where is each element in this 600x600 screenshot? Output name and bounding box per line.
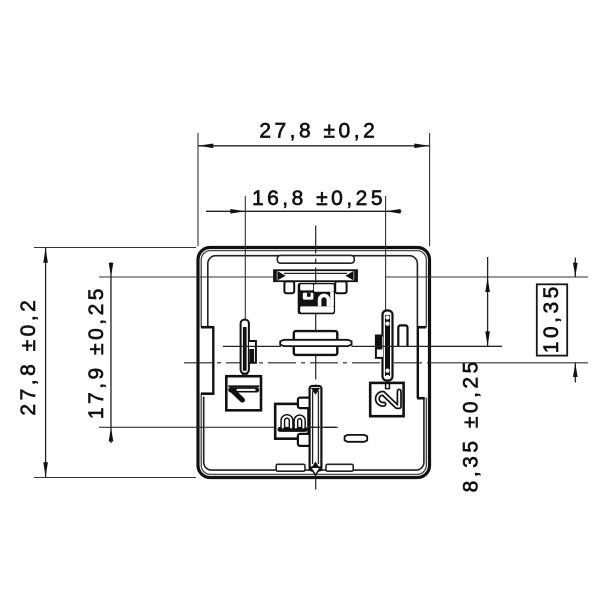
carrier tab right — [335, 281, 346, 293]
box 3 tab bottom — [298, 434, 311, 446]
overlay: blade axis line over blade 1 — [223, 345, 281, 347]
terminal box 3 — [275, 404, 308, 439]
latch bracket left — [201, 326, 214, 394]
blade 2 — [383, 311, 393, 381]
overlay: terminal 3 axis over blade 3 — [308, 426, 338, 428]
latch bracket right — [417, 326, 426, 398]
top carrier bar inner line — [284, 272, 347, 274]
dimension 27.8 left — [17, 248, 48, 478]
svg-text:8,35 ±0,25: 8,35 ±0,25 — [459, 358, 482, 492]
extension line vertical x=244.6 (blade 1 axis) — [244, 196, 246, 320]
extension line vertical x=429.6 (body right edge) — [429, 133, 431, 246]
small slot lower right — [345, 435, 368, 442]
svg-text:16,8 ±0,25: 16,8 ±0,25 — [252, 187, 386, 210]
extension line horizontal y=362.8 right — [430, 362, 588, 364]
svg-text:17,9 ±0,25: 17,9 ±0,25 — [85, 285, 108, 419]
dimension 16.8 top — [206, 187, 402, 214]
extension line y=277 inside body right — [386, 276, 431, 278]
blade 1 — [241, 320, 249, 376]
top carrier bar right end cap — [354, 270, 357, 281]
extension line vertical x=385.6 (blade 2 axis) — [385, 196, 387, 311]
body wall mid line — [201, 251, 426, 475]
latch window left (gap in wall mid line) — [200, 328, 204, 394]
extension line y=427.3 inside body — [196, 426, 338, 428]
bottom wall slot right — [326, 464, 353, 471]
dimension 8.35 right — [459, 257, 490, 492]
box 3 tab top — [298, 398, 311, 409]
dimension 17.9 left — [85, 262, 114, 443]
dimension 10.35 right (boxed) — [537, 258, 578, 383]
body inner wall upper part — [208, 256, 418, 327]
svg-text:27,8 ±0,2: 27,8 ±0,2 — [259, 120, 378, 143]
extension line x=385.6 inside body (blade 2 axis) — [385, 246, 387, 311]
center blade 87a (wide bar) — [280, 340, 351, 346]
top carrier bar left end cap — [274, 270, 277, 281]
extension line x=245.3 inside body (blade 1 axis) — [244, 246, 246, 320]
small bracket right of blade 2 — [398, 325, 407, 347]
bottom wall slot left — [276, 464, 305, 471]
extension line horizontal y=427.3 (terminal 3 axis datum) — [99, 426, 338, 428]
blade 2 side bracket — [376, 336, 383, 358]
extension line horizontal y=346.4 (blade axis datum) — [223, 345, 502, 347]
coil terminal 86 (S-shaped) — [298, 283, 335, 314]
dimension 27.8 top — [198, 120, 430, 148]
svg-text:27,8 ±0,2: 27,8 ±0,2 — [17, 297, 40, 416]
terminal box 1 — [226, 376, 261, 410]
extension line horizontal y=277 (top inner datum) — [99, 276, 588, 278]
extension line vertical x=198 (body left edge) — [197, 133, 199, 246]
centerline horizontal y=362.8 — [184, 362, 430, 364]
extension line horizontal y=477.5 (body bottom, left side) — [34, 477, 196, 479]
terminal box 2 — [370, 383, 403, 416]
latch window right (gap in wall mid line) — [424, 328, 427, 398]
extension line horizontal y=247.5 (body top, left side) — [34, 247, 196, 249]
center slot inner rect — [294, 331, 338, 355]
carrier tab left — [284, 281, 294, 293]
overlay: blade axis line right — [352, 345, 503, 347]
top carrier bar — [274, 270, 357, 281]
svg-text:10,35: 10,35 — [540, 283, 563, 353]
blade 1 side bracket — [249, 341, 256, 363]
extension line y=277 inside body left — [196, 276, 274, 278]
blade 3 — [310, 386, 322, 475]
centerline vertical x=315.7 — [315, 226, 317, 490]
body outer wall — [198, 248, 430, 478]
body inner wall lower part — [204, 397, 424, 471]
top wall slot — [277, 255, 354, 263]
